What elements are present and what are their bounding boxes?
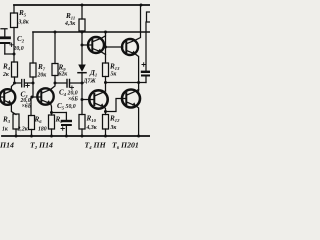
svg-text:4,3к: 4,3к [64, 21, 76, 27]
svg-text:×6Б: ×6Б [22, 103, 32, 109]
svg-text:4,3к: 4,3к [86, 125, 98, 131]
svg-text:П14: П14 [0, 141, 14, 150]
svg-text:20к: 20к [37, 73, 48, 79]
svg-text:3к: 3к [110, 125, 118, 131]
svg-text:×6Б: ×6Б [68, 97, 78, 103]
svg-text:2,2к: 2,2к [17, 127, 29, 133]
svg-text:Т4 ПН: Т4 ПН [85, 141, 107, 151]
svg-text:20,0: 20,0 [13, 46, 24, 52]
svg-text:C5 50,0: C5 50,0 [57, 102, 76, 111]
svg-text:62к: 62к [59, 72, 69, 78]
svg-text:3,8к: 3,8к [18, 19, 30, 25]
svg-text:Т6 П201: Т6 П201 [112, 141, 139, 151]
svg-text:Т2 П14: Т2 П14 [30, 141, 53, 151]
svg-text:180: 180 [38, 127, 47, 133]
svg-text:Д7Ж: Д7Ж [83, 78, 97, 84]
svg-text:2к: 2к [2, 72, 10, 78]
